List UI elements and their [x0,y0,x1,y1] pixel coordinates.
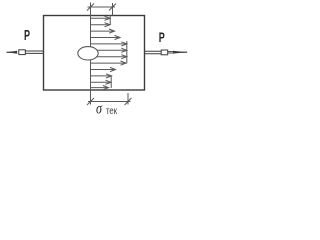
top dimension tick left [87,4,94,11]
stress envelope plateau (yield) [126,41,128,63]
bottom dimension tick left [87,98,94,105]
stress arrow 12 [91,86,109,90]
stress arrow 8 [91,61,127,65]
bottom dimension extension line left [90,90,92,105]
stress arrow 6 [96,48,127,52]
right force arrow collar [161,50,168,55]
bottom dimension tick right [125,98,132,105]
top dimension extension line right [112,3,114,16]
stress arrow 2 [91,23,111,27]
right force arrow neck [168,51,174,53]
stress envelope step bottom [110,76,112,88]
plate rectangle [44,16,145,91]
stress arrow 11 [91,80,112,84]
svg-text:P: P [159,29,165,45]
stress arrow 10 [91,74,112,78]
left force arrow shaft [25,50,43,52]
stress envelope step top [109,16,111,25]
top dimension tick right [109,4,116,11]
svg-text:P: P [24,27,30,44]
svg-text:тек: тек [106,105,117,117]
top dimension line [88,6,116,8]
right force arrow shaft [145,50,162,52]
stress arrow 4 [91,35,121,39]
stress arrow 1 [91,16,111,20]
right force arrow head [173,51,187,54]
section line (vertical through hole) [90,16,92,91]
svg-text:σ: σ [96,101,103,118]
stress arrow 7 [94,55,127,59]
stress arrow 3 [91,29,115,33]
stress arrow 5 [91,42,127,46]
stress arrow 9 [91,67,116,71]
top dimension extension line left [90,3,92,16]
bottom dimension line [88,101,131,103]
bottom dimension extension line right [127,93,129,105]
hole (ellipse) [78,47,98,60]
left force arrow head [7,51,18,54]
left force arrow collar [19,50,26,55]
